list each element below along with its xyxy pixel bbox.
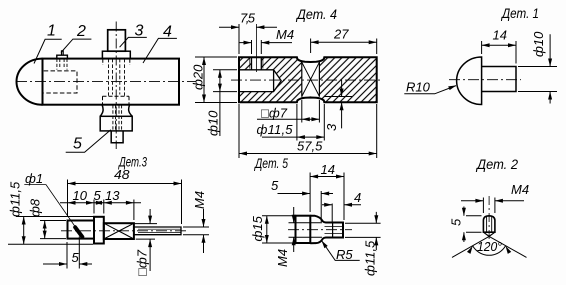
- part 5 stem: [111, 131, 123, 143]
- ext line 7,5 left: [238, 24, 240, 54]
- svg-text:ф11,5: ф11,5: [257, 122, 294, 137]
- dim line 5 det5: [278, 193, 334, 195]
- part 3 hidden shaft: [109, 59, 125, 96]
- svg-text:Дет. 1: Дет. 1: [500, 6, 539, 21]
- svg-text:120°: 120°: [477, 239, 502, 254]
- svg-text:М4: М4: [511, 182, 529, 197]
- dim line M4: [240, 42, 293, 44]
- dim line bottom 5: [43, 263, 92, 265]
- svg-text:2: 2: [76, 23, 86, 40]
- ext lines 10-5-13: [68, 200, 134, 221]
- arrows det2: [475, 199, 483, 203]
- ext lines M4 det5: [289, 223, 323, 238]
- screw part 2 head: [57, 55, 68, 58]
- det5 head: [296, 216, 311, 243]
- svg-text:М4: М4: [276, 27, 294, 42]
- svg-text:ф1: ф1: [25, 171, 43, 186]
- ext lines f15: [262, 216, 294, 243]
- part 5 flange: [100, 116, 132, 131]
- svg-text:1: 1: [47, 23, 56, 40]
- hidden hole below flange: [103, 59, 130, 65]
- det4 bore: [239, 70, 281, 92]
- ext lines 57,5: [239, 104, 377, 158]
- dome part 1: [17, 59, 43, 105]
- det2 axis: [488, 196, 490, 246]
- det2 cone construction lines: [452, 236, 527, 257]
- svg-text:ф15: ф15: [250, 215, 265, 241]
- dim line M4 det5: [293, 207, 295, 252]
- arrows det3: [68, 182, 76, 186]
- part 3 axis: [115, 22, 117, 150]
- svg-text:Дет. 2: Дет. 2: [475, 157, 518, 172]
- dim line f8: [44, 221, 46, 239]
- hidden bore dashed: [44, 71, 77, 93]
- leader 1: [34, 39, 62, 63]
- svg-text:14: 14: [493, 28, 507, 43]
- dim line 10-5-13: [60, 202, 141, 204]
- svg-text:ф11,5: ф11,5: [8, 181, 23, 217]
- leader 4: [143, 38, 177, 63]
- svg-text:5: 5: [94, 188, 102, 203]
- svg-text:М4: М4: [192, 191, 207, 209]
- ext lines M4 det3: [183, 227, 209, 235]
- leader 5: [66, 130, 111, 153]
- dim line sq f7: [257, 118, 319, 120]
- det4 centerline: [231, 79, 382, 81]
- ext lines M4 hole: [252, 40, 262, 54]
- arrows det5: [310, 175, 318, 179]
- dim line M4 det3: [203, 209, 205, 253]
- ext lines f10 det1: [518, 67, 557, 92]
- leader 2: [61, 39, 91, 52]
- svg-text:14: 14: [321, 162, 335, 177]
- svg-text:ф20: ф20: [191, 64, 206, 90]
- ext lines f11,5 det5: [345, 223, 381, 237]
- det5 thread end: [332, 223, 334, 238]
- det3 knurled section: [104, 223, 134, 239]
- det1 centerline: [449, 79, 521, 81]
- dim line 27: [311, 41, 377, 43]
- screw part 3 flange: [102, 51, 130, 58]
- svg-text:ф8: ф8: [28, 198, 43, 217]
- dim line f11,5 det3: [23, 217, 25, 245]
- ext lines sq f7: [302, 100, 320, 123]
- det5 thread lines: [325, 226, 344, 233]
- svg-text:5: 5: [449, 218, 464, 226]
- svg-text:□ф7: □ф7: [135, 249, 150, 276]
- det5 shoulder and neck: [310, 216, 343, 244]
- ext line 5 det5: [320, 191, 322, 222]
- svg-text:□ф7: □ф7: [261, 106, 288, 121]
- det3 threaded rod: [134, 227, 181, 235]
- part 5 hidden: [113, 105, 122, 131]
- dim line f11,5 det5: [375, 212, 377, 250]
- body part 4 outline: [43, 59, 180, 105]
- det4 hole axis: [255, 24, 257, 72]
- ext lines sq f7 det3: [135, 224, 157, 240]
- svg-text:13: 13: [105, 188, 120, 203]
- svg-text:5: 5: [73, 136, 82, 153]
- ext lines M4 det2: [483, 198, 495, 214]
- det1 dome: [457, 57, 482, 105]
- det3 collar: [94, 217, 104, 244]
- leader R10: [404, 86, 456, 94]
- svg-text:3: 3: [324, 123, 339, 131]
- leaders for labels 1-5: [34, 37, 177, 152]
- svg-text:ф10: ф10: [531, 31, 546, 57]
- dim line 5 det2: [463, 207, 465, 243]
- dim line 14 det5: [310, 176, 344, 178]
- det3 centerline: [61, 230, 189, 232]
- dim line 14: [482, 44, 516, 46]
- svg-text:ф11,5: ф11,5: [362, 240, 377, 276]
- svg-text:4: 4: [163, 23, 172, 40]
- svg-text:3: 3: [135, 23, 144, 40]
- ext lines f11,5 det3: [8, 217, 93, 245]
- screw part 2 hidden: [57, 59, 67, 70]
- leader R5: [322, 241, 360, 261]
- det4 M4 hole: [252, 57, 262, 70]
- ext lines 5 det2: [466, 216, 482, 232]
- leader f1: [24, 185, 78, 232]
- ext line 4 det5: [331, 204, 333, 224]
- ext lines f11,5: [297, 104, 324, 141]
- det2 thread lines: [487, 216, 492, 232]
- hatch fill of section: [239, 57, 377, 102]
- ext line 27: [311, 39, 377, 55]
- det4 square hole X: [302, 62, 320, 97]
- dim line 57,5: [239, 153, 377, 155]
- dim line 7,5: [219, 26, 277, 28]
- svg-text:5: 5: [271, 178, 279, 193]
- screw part 3 stem: [108, 30, 126, 51]
- svg-text:4: 4: [354, 190, 361, 205]
- dim line sq f7 det3: [149, 209, 151, 271]
- dim line M4 det2: [461, 200, 524, 202]
- dim line f15: [266, 216, 268, 243]
- ext lines 14: [482, 41, 516, 64]
- det5 centerline: [288, 229, 352, 231]
- hidden counterbore bottom: [103, 96, 130, 104]
- det1 cylinder: [482, 67, 516, 92]
- svg-text:57,5: 57,5: [297, 139, 323, 154]
- ext lines 48: [68, 180, 182, 225]
- svg-text:5: 5: [72, 250, 80, 265]
- svg-text:10: 10: [73, 188, 88, 203]
- svg-text:27: 27: [333, 27, 349, 42]
- svg-text:R5: R5: [336, 247, 353, 262]
- ext lines f8: [40, 221, 66, 239]
- ext lines bottom 5: [67, 237, 79, 269]
- svg-text:Дет. 4: Дет. 4: [295, 7, 337, 22]
- det3 f1 hole: [75, 227, 82, 237]
- dim line 48: [68, 183, 182, 185]
- dim line f10: [219, 70, 221, 136]
- det2 cone point: [483, 232, 495, 236]
- det2 screw body: [483, 216, 495, 232]
- arrows det4: [231, 25, 239, 29]
- ext lines 14 det5: [310, 173, 344, 221]
- dim line f11,5: [262, 136, 324, 138]
- centerline assembly: [16, 81, 196, 83]
- dim line 4 det5: [322, 204, 361, 206]
- svg-text:R10: R10: [406, 80, 431, 95]
- dim line f20: [203, 57, 205, 103]
- svg-text:Дет. 5: Дет. 5: [253, 156, 288, 171]
- det2 120 arc: [473, 246, 506, 255]
- svg-text:7,5: 7,5: [240, 11, 256, 26]
- part 5 bell: [100, 105, 132, 117]
- det3 f8 section: [68, 221, 95, 239]
- svg-text:М4: М4: [275, 249, 290, 267]
- dim 3 arrows line: [324, 80, 352, 128]
- det4 outline: [239, 57, 377, 102]
- svg-text:48: 48: [114, 167, 130, 182]
- ext lines f20: [195, 57, 237, 103]
- ext lines f10: [213, 70, 237, 92]
- leader 3: [120, 37, 147, 47]
- svg-text:ф10: ф10: [206, 110, 221, 136]
- dim line f10 det1: [549, 34, 551, 103]
